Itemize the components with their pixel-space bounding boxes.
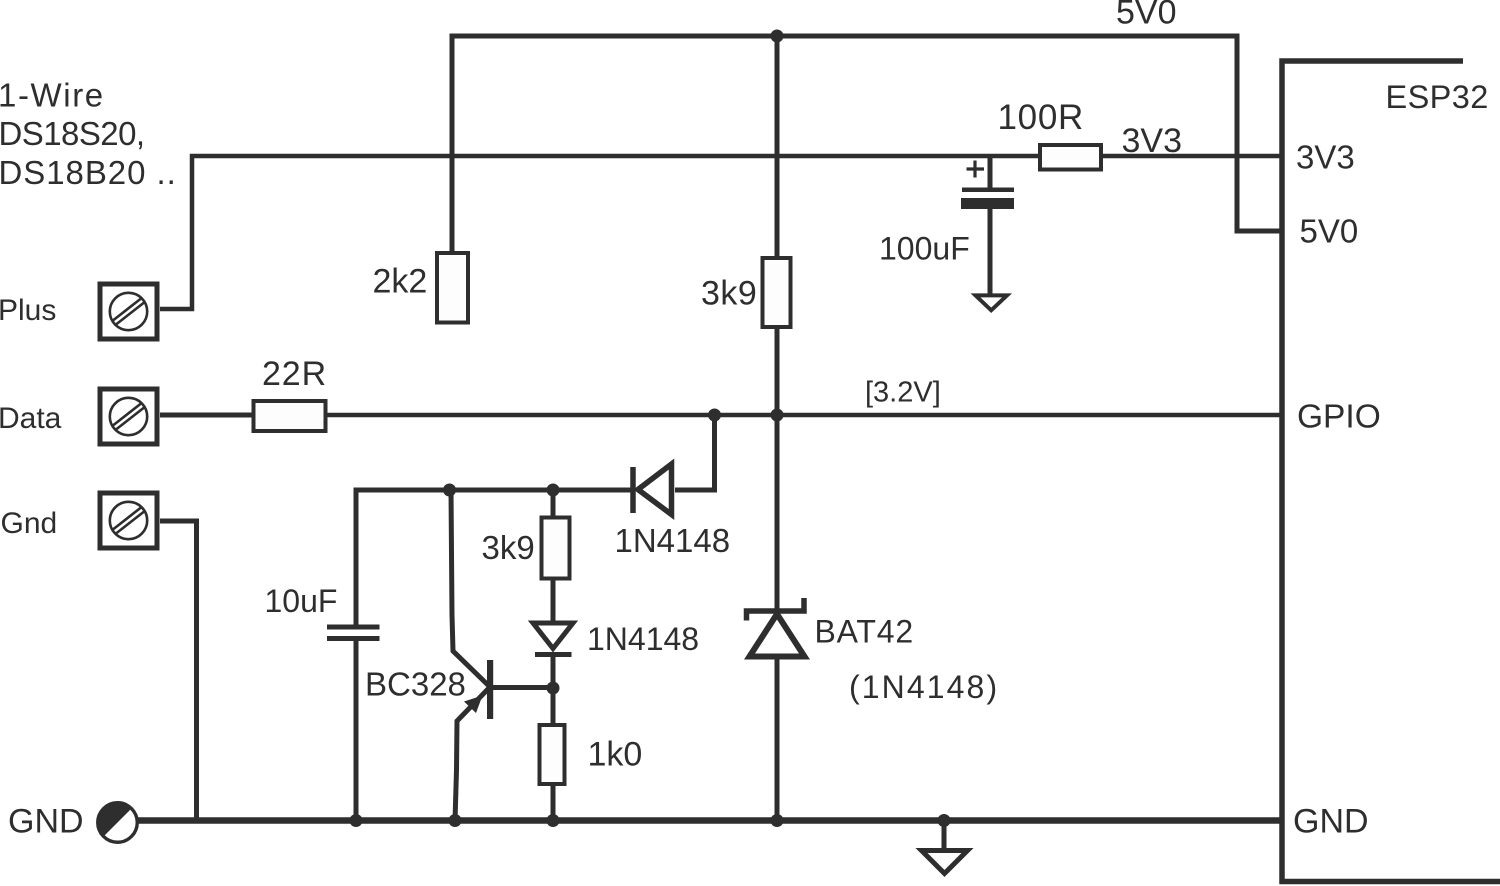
svg-text:5V0: 5V0 [1116, 0, 1177, 32]
capacitor C2 10uF plates [327, 625, 380, 630]
svg-text:10uF: 10uF [265, 583, 338, 619]
wire 1k0 to GND bus [551, 784, 556, 823]
resistor R5 3k9 [542, 518, 570, 579]
diode D3 BAT42 triangle [750, 614, 805, 657]
svg-text:BC328: BC328 [365, 666, 466, 703]
svg-text:GND: GND [1293, 803, 1369, 841]
svg-text:DS18B20 ..: DS18B20 .. [0, 154, 177, 191]
ESP32 box [1282, 61, 1500, 882]
wire 3k9 column down to BAT42 [775, 327, 780, 609]
wire D1 anode up to GPIO [675, 415, 715, 490]
junction GND bus / R6 [547, 814, 560, 827]
wire 3k9b from node row [551, 490, 556, 518]
wire 3V3 right segment [1103, 154, 1282, 159]
transistor Q1 body bar [487, 660, 493, 719]
junction 5V0 rail / R3 column [771, 30, 784, 43]
resistor R3 3k9 [763, 258, 791, 327]
svg-text:3k9: 3k9 [482, 529, 535, 566]
ground symbol below 100uF [976, 295, 1008, 310]
wire 3V3 run from Plus terminal [160, 156, 1038, 309]
svg-text:100uF: 100uF [879, 231, 970, 267]
junction GND bus / BAT42 [771, 814, 784, 827]
wire node row y=490 [356, 490, 633, 627]
junction GND bus / ground symbol [938, 814, 951, 827]
svg-text:ESP32: ESP32 [1386, 79, 1489, 115]
wire Gnd terminal to GND bus [160, 521, 197, 818]
junction node row / Q1 collector column [443, 484, 456, 497]
junction GND bus / Q1 emitter [449, 814, 462, 827]
junction GND bus / C2 [350, 814, 363, 827]
GND circle symbol [98, 803, 138, 843]
svg-text:3V3: 3V3 [1122, 122, 1183, 160]
svg-text:[3.2V]: [3.2V] [865, 377, 941, 409]
junction Q1 base / D2 / R6 [547, 682, 560, 695]
wire 5V0 top rail [452, 36, 1282, 231]
diode D1 1N4148 horizontal cathode bar [630, 467, 636, 513]
svg-text:22R: 22R [262, 355, 327, 393]
svg-text:1k0: 1k0 [588, 736, 643, 774]
svg-text:GND: GND [8, 803, 84, 841]
wire R5 to D2 [551, 579, 556, 624]
svg-text:1N4148: 1N4148 [615, 522, 731, 559]
svg-text:BAT42: BAT42 [815, 614, 914, 650]
svg-text:5V0: 5V0 [1300, 213, 1359, 250]
capacitor C1 100uF plus sign [967, 161, 985, 178]
wire 2k2 top column [450, 34, 455, 254]
svg-text:Plus: Plus [0, 294, 56, 327]
wire 10uF to GND bus [354, 641, 359, 823]
svg-text:3k9: 3k9 [701, 275, 757, 313]
wire Data to 22R [160, 413, 253, 418]
capacitor C1 100uF plates [962, 188, 1014, 193]
svg-text:1-Wire: 1-Wire [0, 77, 105, 114]
diode D1 1N4148 triangle [638, 464, 672, 515]
transistor Q1 emitter lead [455, 688, 489, 821]
transistor Q1 base lead [493, 685, 553, 690]
junction GPIO line / R3-BAT42 column [771, 409, 784, 422]
svg-text:Gnd: Gnd [1, 507, 58, 540]
wire 100uF to ground [988, 209, 993, 294]
svg-text:Data: Data [0, 402, 62, 435]
svg-text:100R: 100R [998, 98, 1084, 137]
wire BAT42 to GND bus [775, 658, 780, 823]
junction node row / R5 column [547, 484, 560, 497]
svg-text:2k2: 2k2 [373, 263, 428, 301]
resistor R2 100R [1040, 145, 1101, 170]
svg-text:DS18S20,: DS18S20, [0, 115, 145, 152]
diode D2 1N4148 vertical triangle [533, 623, 573, 649]
svg-text:GPIO: GPIO [1297, 399, 1381, 436]
svg-text:1N4148: 1N4148 [587, 621, 699, 657]
terminal Data [100, 389, 157, 444]
ground symbol on GND bus [942, 818, 947, 848]
diode D2 cathode bar [535, 652, 572, 657]
svg-text:3V3: 3V3 [1296, 139, 1355, 176]
terminal Gnd [100, 493, 157, 548]
transistor Q1 BC328 collector lead [451, 490, 489, 686]
diode D3 BAT42 schottky bar [747, 598, 805, 621]
capacitor C1 100uF stem top [988, 156, 993, 188]
resistor R1 2k2 [437, 253, 468, 323]
wire GPIO run [327, 413, 1282, 418]
wire D2 to base node [551, 656, 556, 725]
GND bus wire [138, 817, 1282, 824]
svg-text:(1N4148): (1N4148) [849, 669, 999, 705]
resistor R6 1k0 [540, 725, 565, 784]
junction GPIO line / D1 branch [708, 409, 721, 422]
transistor Q1 emitter arrow [464, 696, 483, 714]
wire 3k9 column top [775, 34, 780, 259]
terminal Plus [100, 284, 157, 339]
resistor R4 22R [254, 401, 326, 431]
